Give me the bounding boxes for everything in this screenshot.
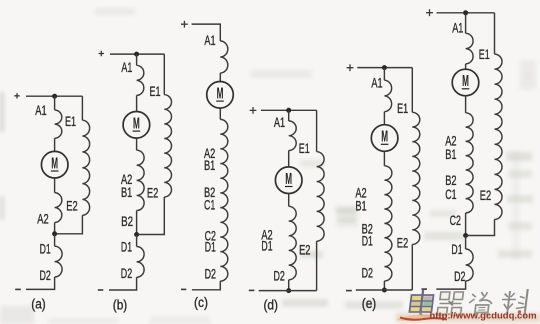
wire: A1 lead of (d) [288, 110, 290, 121]
svg-text:A1: A1 [121, 59, 132, 75]
svg-text:D1: D1 [205, 238, 216, 254]
svg-text:A1: A1 [274, 114, 285, 130]
motor M of (b) [123, 112, 150, 139]
svg-text:C2: C2 [450, 212, 461, 228]
wire: B2 lead to junction of (b) [136, 211, 138, 235]
winding D1-D2 (series field) of (b) [137, 247, 145, 278]
wire: top feed of circuit (f) [437, 12, 466, 14]
svg-text:A1: A1 [371, 75, 382, 91]
node: top junction of (f) [463, 10, 468, 15]
circuit (f) negative terminal - [422, 288, 428, 290]
circuit (c) negative terminal - [181, 288, 186, 290]
svg-text:D1: D1 [121, 239, 132, 255]
wire: top branch wire to shunt field of (e) [384, 67, 412, 69]
winding E1-E2 (shunt field) of (f) [495, 54, 503, 219]
watermark: large text 电器资料 [409, 289, 528, 317]
wire: E2 return to mid junction of (f) [468, 219, 495, 235]
svg-text:D2: D2 [121, 265, 133, 281]
circuit (d) positive terminal + [250, 107, 257, 114]
wire: coil to motor of (c) [219, 73, 221, 82]
wire: coil to motor of (f) [465, 64, 467, 70]
node: top junction of (a) [52, 94, 57, 99]
svg-text:A2: A2 [37, 211, 49, 227]
svg-text:M: M [217, 85, 224, 102]
wire: shunt branch right side of (e) [411, 68, 413, 113]
svg-text:B1: B1 [204, 157, 215, 173]
svg-text:A1: A1 [452, 20, 463, 36]
wire: coil to motor of (b) [136, 95, 138, 111]
winding A1 (armature top half) of (a) [55, 110, 62, 138]
node: bottom junction of (b) [134, 232, 139, 237]
wire: top feed of circuit (a) [26, 95, 55, 97]
svg-text:(c): (c) [194, 295, 208, 310]
winding A2-B1-B2-C1-C2-D1-D2 (series chain) of (c) [220, 119, 228, 281]
svg-text:M: M [462, 73, 469, 90]
svg-text:E2: E2 [480, 187, 492, 203]
svg-text:M: M [51, 155, 58, 172]
wire: D2 lead to bottom rail of (a) [26, 277, 55, 289]
svg-text:D1: D1 [261, 237, 272, 253]
winding A2-B1-B2-C1-C2 chain of (f) [466, 113, 473, 213]
wire: A1 lead of (b) [136, 54, 138, 65]
wire: A1 lead of (a) [54, 96, 56, 110]
svg-text:E1: E1 [479, 46, 490, 62]
wire: D2 lead to bottom junction of (e) [383, 281, 385, 290]
wire: motor to winding chain of (c) [219, 108, 221, 119]
wire: D2 lead to bottom rail of (c) [192, 281, 220, 290]
motor M of (a) [41, 151, 68, 178]
circuit (b) positive terminal + [99, 51, 104, 56]
svg-text:A1: A1 [204, 32, 215, 48]
wire: coil to motor of (a) [54, 138, 56, 151]
wire: A1 lead of (f) [465, 13, 467, 34]
wire: E2 return to bottom rail of (e) [411, 244, 413, 290]
svg-text:D1: D1 [451, 241, 462, 257]
svg-text:E1: E1 [150, 83, 161, 99]
wire: motor to winding chain of (f) [465, 96, 467, 113]
svg-text:D2: D2 [274, 268, 286, 284]
svg-text:E2: E2 [299, 241, 311, 257]
wire: shunt branch right side of (b) [163, 54, 165, 95]
wire: C2 lead to mid junction of (f) [465, 213, 467, 236]
svg-text:E1: E1 [65, 113, 76, 129]
circuit (a) negative terminal - [15, 288, 21, 290]
svg-text:E1: E1 [299, 140, 310, 156]
winding E1-E2 (shunt field) of (b) [164, 95, 171, 197]
circuit (a) positive terminal + [14, 93, 19, 98]
circuit (d) negative terminal - [249, 289, 255, 291]
watermark char 3: 资 [467, 292, 493, 317]
circuit (f) positive terminal + [426, 9, 433, 16]
svg-text:D1: D1 [362, 233, 373, 249]
wire: top feed of circuit (c) [192, 24, 221, 41]
wire: top branch wire to shunt field E of (a) [55, 95, 83, 97]
wire: top feed of circuit (b) [110, 53, 137, 55]
wire: coil to motor of (d) [288, 151, 290, 168]
watermark char 1: 电 [409, 290, 434, 316]
svg-text:B1: B1 [355, 197, 366, 213]
node: bottom junction of (a) [52, 231, 57, 236]
wire: E2 return to bottom junction of (a) [57, 215, 83, 234]
wire: D2 lead to bottom rail of (b) [109, 277, 137, 290]
node: bottom junction of (e) [382, 288, 387, 293]
svg-text:B1: B1 [445, 146, 456, 162]
motor M of (f) [452, 69, 479, 96]
winding E1-E2 (shunt field) of (a) [82, 120, 89, 215]
svg-text:(a): (a) [31, 297, 46, 312]
wire: top feed of circuit (d) [261, 109, 289, 111]
wire: motor to lower coils of (b) [136, 138, 138, 150]
circuit (e) negative terminal - [346, 290, 352, 292]
winding A1 (armature top) of (b) [137, 65, 144, 95]
svg-text:D2: D2 [362, 264, 374, 280]
svg-text:D2: D2 [205, 266, 217, 282]
svg-text:E2: E2 [66, 197, 78, 213]
node: top junction of (b) [134, 52, 139, 57]
node: top junction of (d) [286, 108, 291, 113]
wire: A2 lead down to junction of (a) [54, 223, 56, 234]
winding D1-D2 (series field) of (a) [55, 246, 63, 277]
motor M of (e) [371, 125, 398, 152]
winding A1 (armature top) of (f) [466, 33, 474, 64]
wire: junction to series winding D1 of (a) [54, 234, 56, 246]
svg-text:E2: E2 [397, 234, 409, 250]
svg-text:(d): (d) [263, 297, 278, 312]
circuit (e) positive terminal + [347, 64, 354, 71]
winding A2-B1-B2-D1-D2 chain of (e) [384, 166, 392, 281]
motor M of (d) [275, 167, 302, 194]
svg-text:D1: D1 [40, 240, 51, 256]
node: mid junction (C2) of (f) [463, 233, 468, 238]
faint bleed-through ghost marks from reverse page [95, 8, 536, 309]
svg-text:D2: D2 [40, 267, 52, 283]
wire: E2 return to junction of (b) [139, 197, 165, 235]
winding A1 (armature top) of (c) [220, 41, 228, 73]
wire: E2 return to bottom rail of (d) [316, 241, 318, 290]
svg-text:http://www.gcdudq.com: http://www.gcdudq.com [430, 311, 537, 321]
svg-text:(e): (e) [362, 296, 377, 311]
wire: shunt branch right side of (f) [494, 13, 496, 54]
watermark: peach smear [396, 315, 434, 321]
node: bottom junction of (d) [286, 288, 291, 293]
winding A2 (armature bottom half) of (a) [55, 193, 62, 223]
svg-text:B1: B1 [121, 184, 132, 200]
winding D1-D2 (series field) of (f) [466, 249, 474, 281]
wire: shunt branch right side of (d) [316, 110, 318, 151]
svg-text:M: M [381, 129, 388, 146]
wire: top feed of circuit (e) [357, 67, 384, 69]
wire: bottom rail of (e) [356, 289, 413, 291]
wire: motor to lower coil of (a) [54, 178, 56, 193]
wire: junction to D1 of (b) [136, 235, 138, 247]
watermark: red squiggle [400, 318, 447, 320]
svg-text:B2: B2 [121, 213, 133, 229]
watermark char 2: 器 [437, 292, 463, 316]
svg-text:(b): (b) [113, 298, 128, 313]
wire: motor to lower coils of (d) [288, 194, 290, 207]
svg-text:A1: A1 [35, 102, 47, 118]
winding A1 (armature top) of (d) [289, 121, 297, 151]
watermark char 4: 料 [500, 289, 528, 317]
winding A2-B1-B2 (armature + commutating) of (b) [137, 150, 145, 210]
node: top junction of (e) [382, 65, 387, 70]
winding E1-E2 (shunt field) of (d) [317, 152, 325, 242]
wire: D2 lead to bottom rail of (f) [436, 281, 465, 289]
svg-text:M: M [285, 171, 292, 188]
wire: bottom rail of (d) [259, 290, 317, 292]
wire: A1 lead of (e) [383, 68, 385, 81]
wire: top branch wire to shunt field of (d) [289, 109, 317, 111]
wire: junction to D1 of (f) [465, 236, 467, 250]
wire: D2 lead to bottom junction of (d) [288, 280, 290, 291]
circuit (b) negative terminal - [98, 289, 104, 291]
svg-text:M: M [133, 115, 140, 132]
wire: top branch wire to shunt field of (f) [466, 12, 495, 14]
circuit (c) positive terminal + [181, 21, 188, 28]
winding E1-E2 (shunt field) of (e) [412, 112, 420, 244]
motor M of (c) [207, 82, 234, 109]
svg-text:C1: C1 [445, 186, 456, 202]
watermark: tan band under the big text [396, 314, 540, 323]
wire: motor to lower coils of (e) [383, 151, 385, 166]
svg-text:E2: E2 [147, 185, 159, 201]
wire: top branch wire to shunt field E of (b) [137, 53, 165, 55]
wire: coil to motor of (e) [383, 112, 385, 125]
winding A2-D1-D2 (armature + series field) of (d) [289, 206, 297, 280]
svg-text:D2: D2 [454, 268, 466, 284]
winding A1 (armature top) of (e) [384, 80, 391, 112]
svg-text:E1: E1 [397, 100, 408, 116]
wire: shunt field branch E1-E2 right side of (a) [81, 96, 83, 120]
svg-text:C1: C1 [204, 197, 215, 213]
